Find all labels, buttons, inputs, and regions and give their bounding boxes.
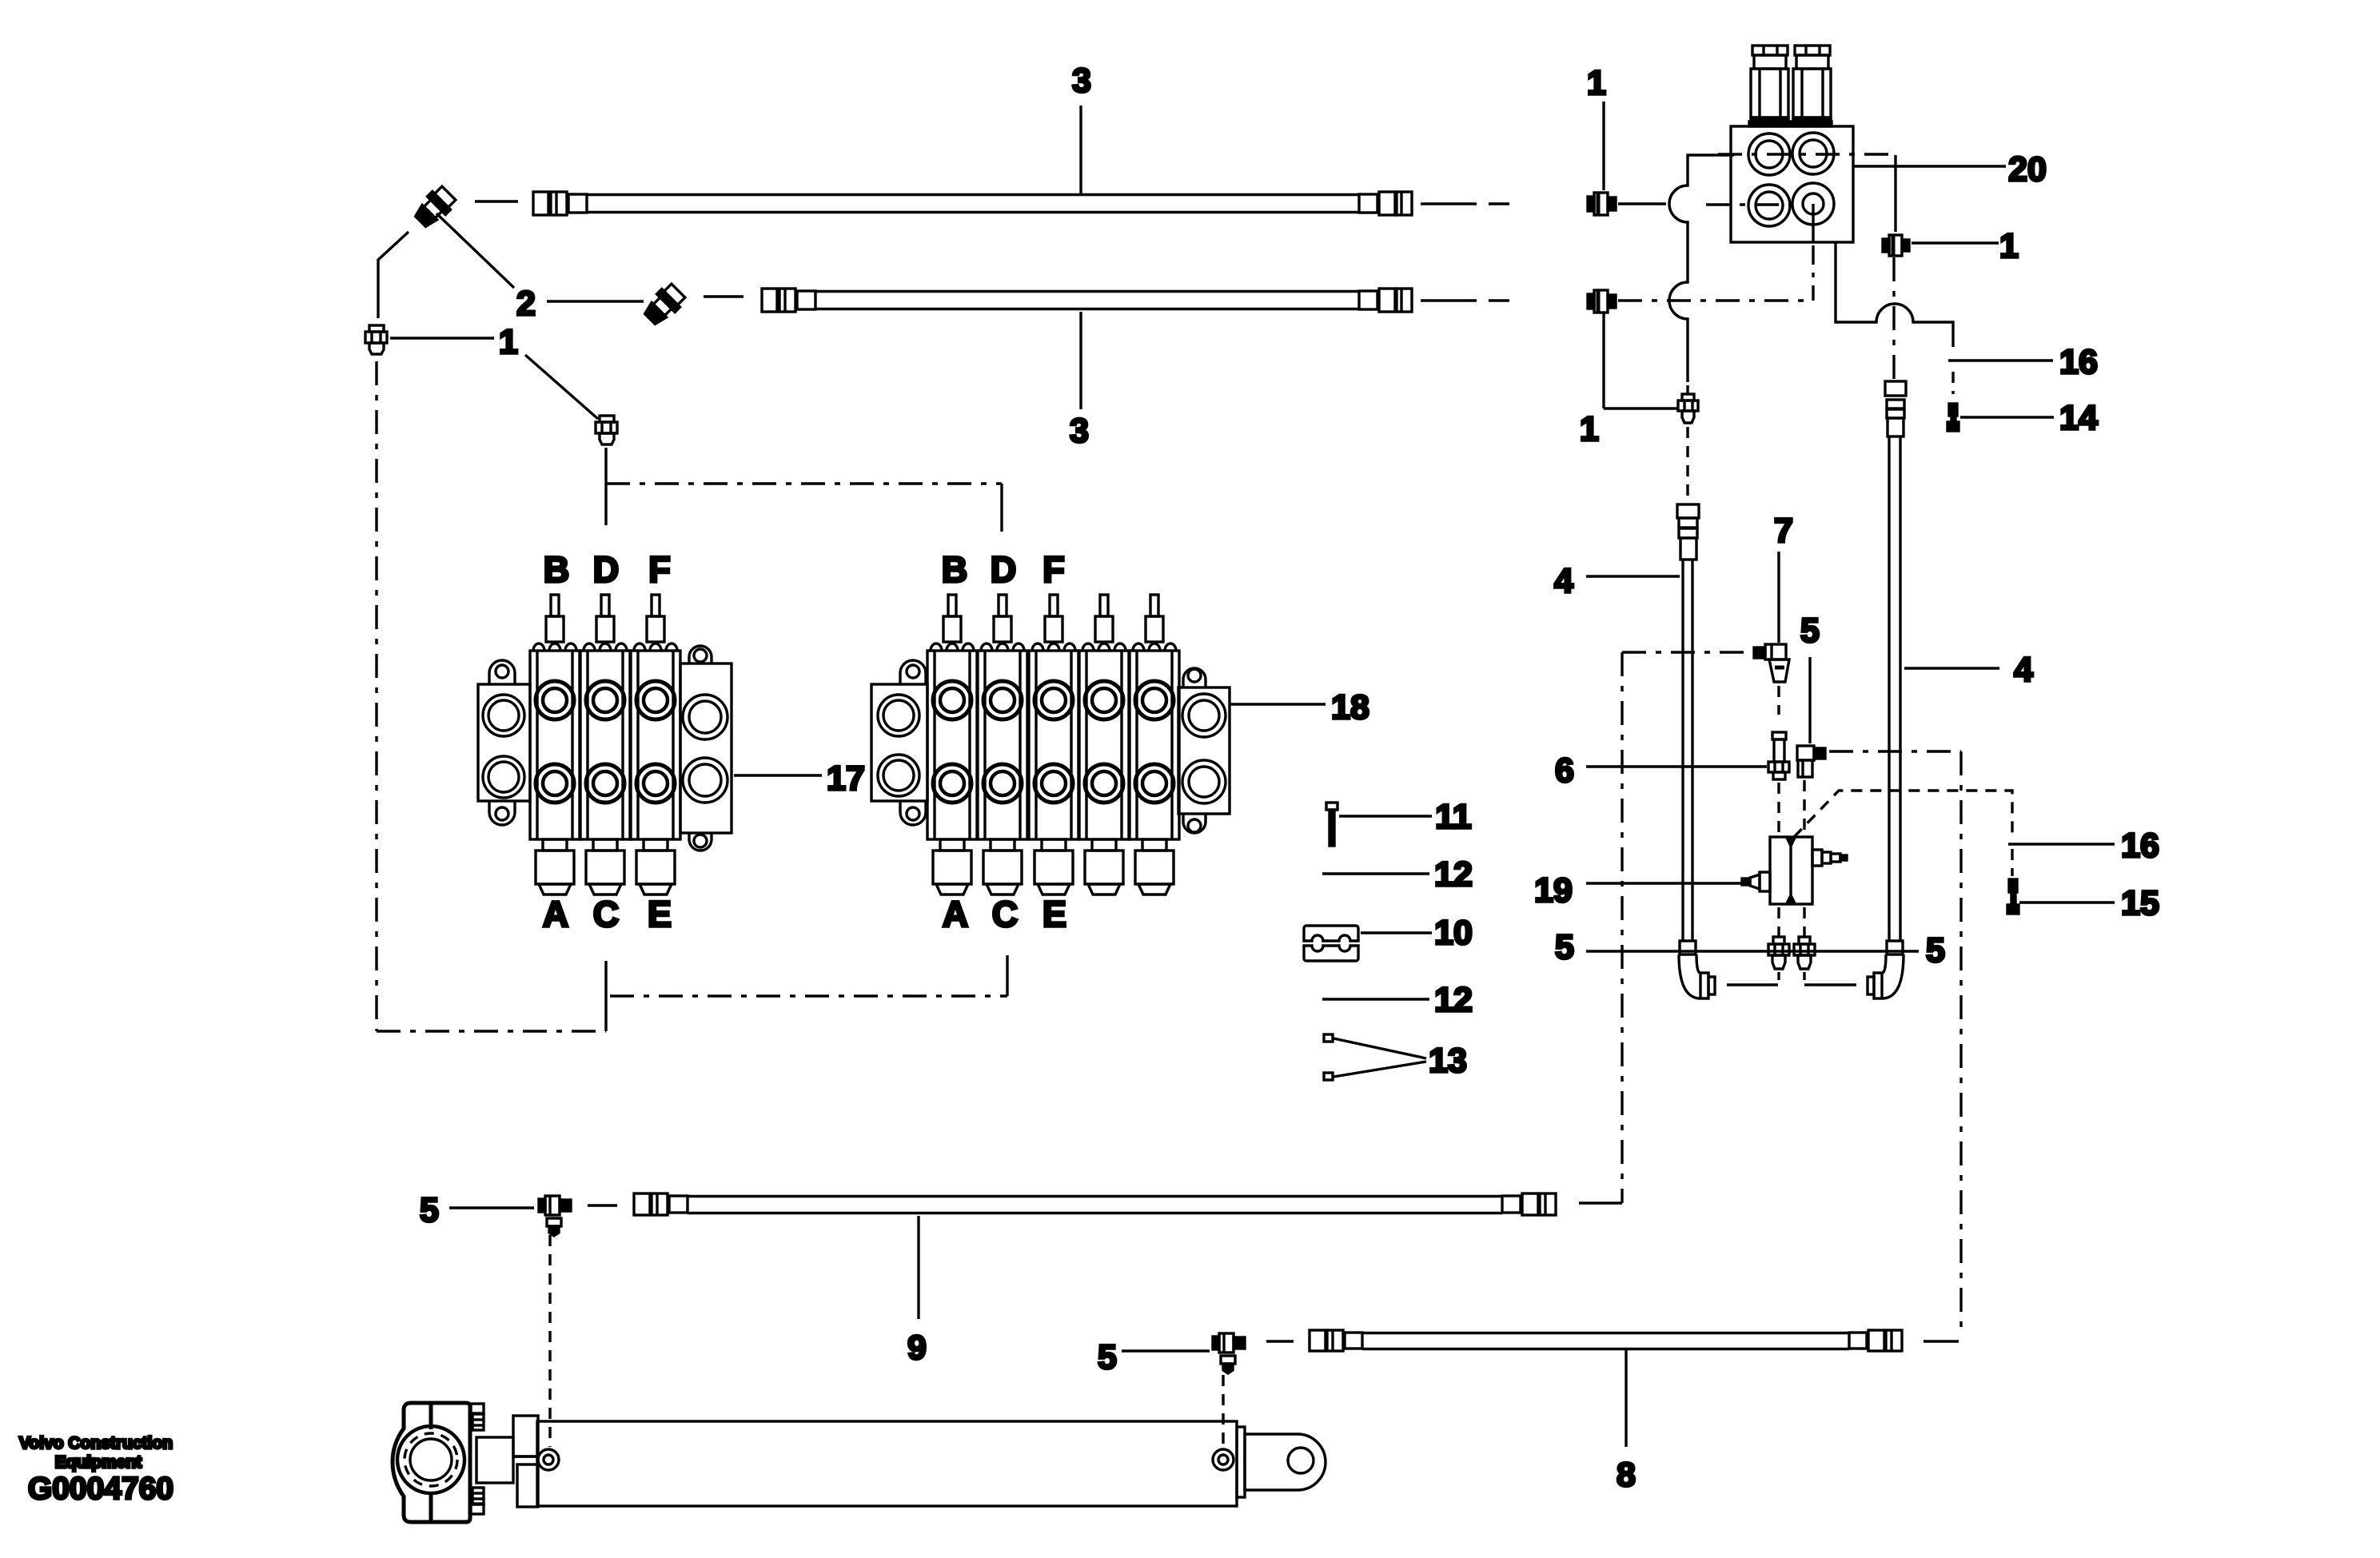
line fitting 1c to port (dash-dot) (1618, 202, 1666, 205)
trunnion clamp left (393, 1403, 484, 1522)
svg-text:16: 16 (2121, 827, 2159, 865)
svg-text:2: 2 (516, 285, 536, 323)
svg-text:20: 20 (2008, 150, 2047, 189)
label 10 (1361, 931, 1432, 934)
dash-dot below fitting 1f (1892, 257, 1895, 379)
fitting 1f (1883, 235, 1909, 256)
elbow fitting 2a (412, 184, 458, 230)
svg-text:14: 14 (2059, 399, 2098, 437)
svg-text:Equipment: Equipment (55, 1453, 142, 1472)
links 5c 5d down to elbows (1777, 972, 1780, 983)
pilot line below fitting 1b (604, 448, 607, 525)
svg-text:8: 8 (1617, 1456, 1636, 1494)
label 14 (1960, 416, 2054, 418)
hose 4 right (1868, 381, 1906, 998)
fitting 6 (1768, 732, 1789, 779)
svg-text:C: C (593, 894, 620, 934)
hose 4 left (1677, 504, 1715, 998)
link block to fitting 1f (1894, 155, 1896, 232)
svg-text:12: 12 (1434, 981, 1473, 1019)
svg-text:6: 6 (1555, 751, 1574, 790)
fitting 5a (539, 1196, 571, 1236)
svg-text:F: F (648, 549, 671, 590)
label 8 (1625, 1350, 1627, 1447)
label 5 line across (1586, 950, 1919, 952)
pilot bracket bottom left (dash-dot) (377, 1030, 606, 1032)
valve assembly 17 (478, 595, 732, 895)
label 20 (1854, 165, 2006, 167)
svg-text:C: C (992, 894, 1019, 934)
svg-text:15: 15 (2121, 884, 2159, 922)
rod clevis right (1245, 1434, 1326, 1490)
fitting 5b (1213, 1333, 1245, 1373)
svg-text:E: E (1042, 894, 1066, 934)
label 1 right (1912, 241, 1999, 244)
leader polyline 2a to 1a (378, 232, 409, 318)
svg-text:5: 5 (1098, 1338, 1117, 1377)
fitting 1a (365, 325, 387, 354)
svg-text:5: 5 (1555, 928, 1574, 966)
pin 12a (1322, 872, 1429, 875)
lower-right port pilot line (1812, 204, 1814, 242)
fitting 5 mid elbow (1797, 746, 1825, 777)
dash-dot elbow 7 to hose 9 path (1622, 651, 1752, 653)
dashed fitting 5b to cylinder port (1222, 1375, 1224, 1447)
hose 3 upper (533, 192, 1412, 215)
label 4 left (1586, 575, 1680, 577)
svg-text:19: 19 (1534, 871, 1573, 910)
valve assembly 18 (871, 595, 1230, 895)
svg-text:1: 1 (1587, 64, 1606, 102)
svg-text:D: D (593, 549, 620, 590)
leader hose 8 right (1924, 1340, 1959, 1342)
bolt 15 (2007, 879, 2019, 914)
bolt 14 (1947, 404, 1959, 431)
svg-text:B: B (544, 549, 570, 590)
svg-text:17: 17 (827, 759, 865, 798)
label 16 top (1948, 359, 2053, 361)
hose 9 (634, 1193, 1556, 1215)
cylinder barrel (537, 1421, 1245, 1506)
fitting 5c (1768, 937, 1789, 969)
svg-text:18: 18 (1331, 688, 1369, 727)
bolt 11 (1326, 803, 1338, 846)
svg-text:4: 4 (1554, 562, 1573, 600)
solenoid valve left on block 20 (1749, 46, 1789, 126)
piston rod (476, 1437, 513, 1483)
pilot line from fitting 1a down (dash-dot) (375, 361, 377, 1031)
pilot axis upper ports (dash-dot) (1718, 153, 1896, 155)
fitting 1b (596, 416, 617, 444)
dashed fitting 5a to cylinder port (548, 1235, 551, 1447)
hose 8 (1310, 1330, 1902, 1351)
pilot bracket bottom to valve 18 (dash-dot) (610, 994, 1007, 997)
svg-text:13: 13 (1429, 1042, 1467, 1080)
vertical link 1d to 1e label (1602, 313, 1605, 408)
dashed below elbow 7 (1777, 686, 1780, 715)
svg-text:D: D (991, 549, 1017, 590)
svg-text:16: 16 (2059, 343, 2098, 381)
elbow fitting 7 (1754, 644, 1789, 682)
svg-text:4: 4 (2014, 651, 2033, 689)
leader line hose 3 lower right (1421, 299, 1477, 301)
label 4 right (1904, 667, 1999, 669)
leader diagonal to fitting 1b (525, 355, 598, 419)
stepped pilot line with crossovers (1669, 155, 1734, 382)
svg-text:10: 10 (1434, 914, 1473, 952)
svg-text:5: 5 (1800, 612, 1820, 650)
svg-text:Volvo Construction: Volvo Construction (19, 1434, 173, 1452)
cylinder gland (513, 1416, 538, 1456)
pipe from block 20 to parts 16 14 (1836, 242, 1953, 347)
fitting 1d (1588, 290, 1616, 313)
label 17 (734, 774, 822, 776)
hose 3 lower (762, 289, 1412, 312)
label 11 (1339, 815, 1432, 817)
elbow fitting 2b (641, 281, 688, 328)
dash-dot hose 8 to fitting 5 path (1829, 750, 1961, 752)
manifold block 20 (1731, 126, 1853, 242)
clamp 10 (1304, 926, 1358, 961)
leader dash to hose 3 lower (704, 295, 744, 297)
pilot bracket to valve 18 (dash-dot) (606, 482, 1002, 484)
svg-text:11: 11 (1435, 798, 1471, 836)
dashed link to bolt 14 (1951, 372, 1954, 394)
svg-text:5: 5 (420, 1191, 439, 1229)
svg-text:1: 1 (1580, 410, 1599, 448)
svg-text:3: 3 (1070, 412, 1089, 450)
fitting 5d (1794, 937, 1815, 969)
svg-text:1: 1 (1999, 227, 2019, 265)
svg-text:5: 5 (1926, 931, 1945, 970)
screws 13 (1324, 1034, 1426, 1080)
leader line hose 3 upper right (1421, 202, 1477, 205)
label 15 (2019, 901, 2115, 903)
svg-text:7: 7 (1774, 512, 1793, 550)
leader hose 9 to path (1579, 1201, 1622, 1204)
label 3 top (1079, 106, 1082, 194)
svg-text:B: B (942, 549, 968, 590)
valve 19 (1742, 837, 1847, 904)
fitting 1c (1588, 193, 1616, 215)
svg-text:A: A (543, 894, 569, 934)
svg-text:1: 1 (499, 323, 518, 361)
fitting 1e (1678, 394, 1698, 423)
dashes below fitting 1e (1686, 427, 1688, 500)
leader dash from fitting 2 to hose 3 upper (475, 200, 518, 202)
pin 12b (1322, 998, 1429, 1000)
svg-text:A: A (943, 894, 969, 934)
label 6 (1586, 765, 1767, 767)
label 2 (437, 213, 514, 288)
label 18 (1230, 703, 1326, 705)
label 1 first (390, 337, 494, 339)
svg-text:F: F (1042, 549, 1065, 590)
svg-text:E: E (648, 894, 672, 934)
label 9 (917, 1216, 919, 1319)
svg-text:3: 3 (1072, 62, 1091, 100)
label 16 bottom (2008, 843, 2115, 845)
label 19 (1586, 882, 1747, 884)
dashed link to bolt 15 (2011, 849, 2013, 876)
svg-text:12: 12 (1434, 855, 1473, 894)
svg-text:G0004760: G0004760 (28, 1472, 173, 1506)
dashed valve 19 to parts 16 15 (1794, 791, 2012, 839)
pilot line y376 (dash-dot) (1618, 299, 1813, 301)
svg-text:9: 9 (907, 1329, 927, 1367)
dashed links fittings 6 and 5 to 5c 5d (1777, 783, 1780, 834)
label 3 bottom (1079, 312, 1082, 409)
solenoid valve right on block 20 (1792, 46, 1832, 126)
